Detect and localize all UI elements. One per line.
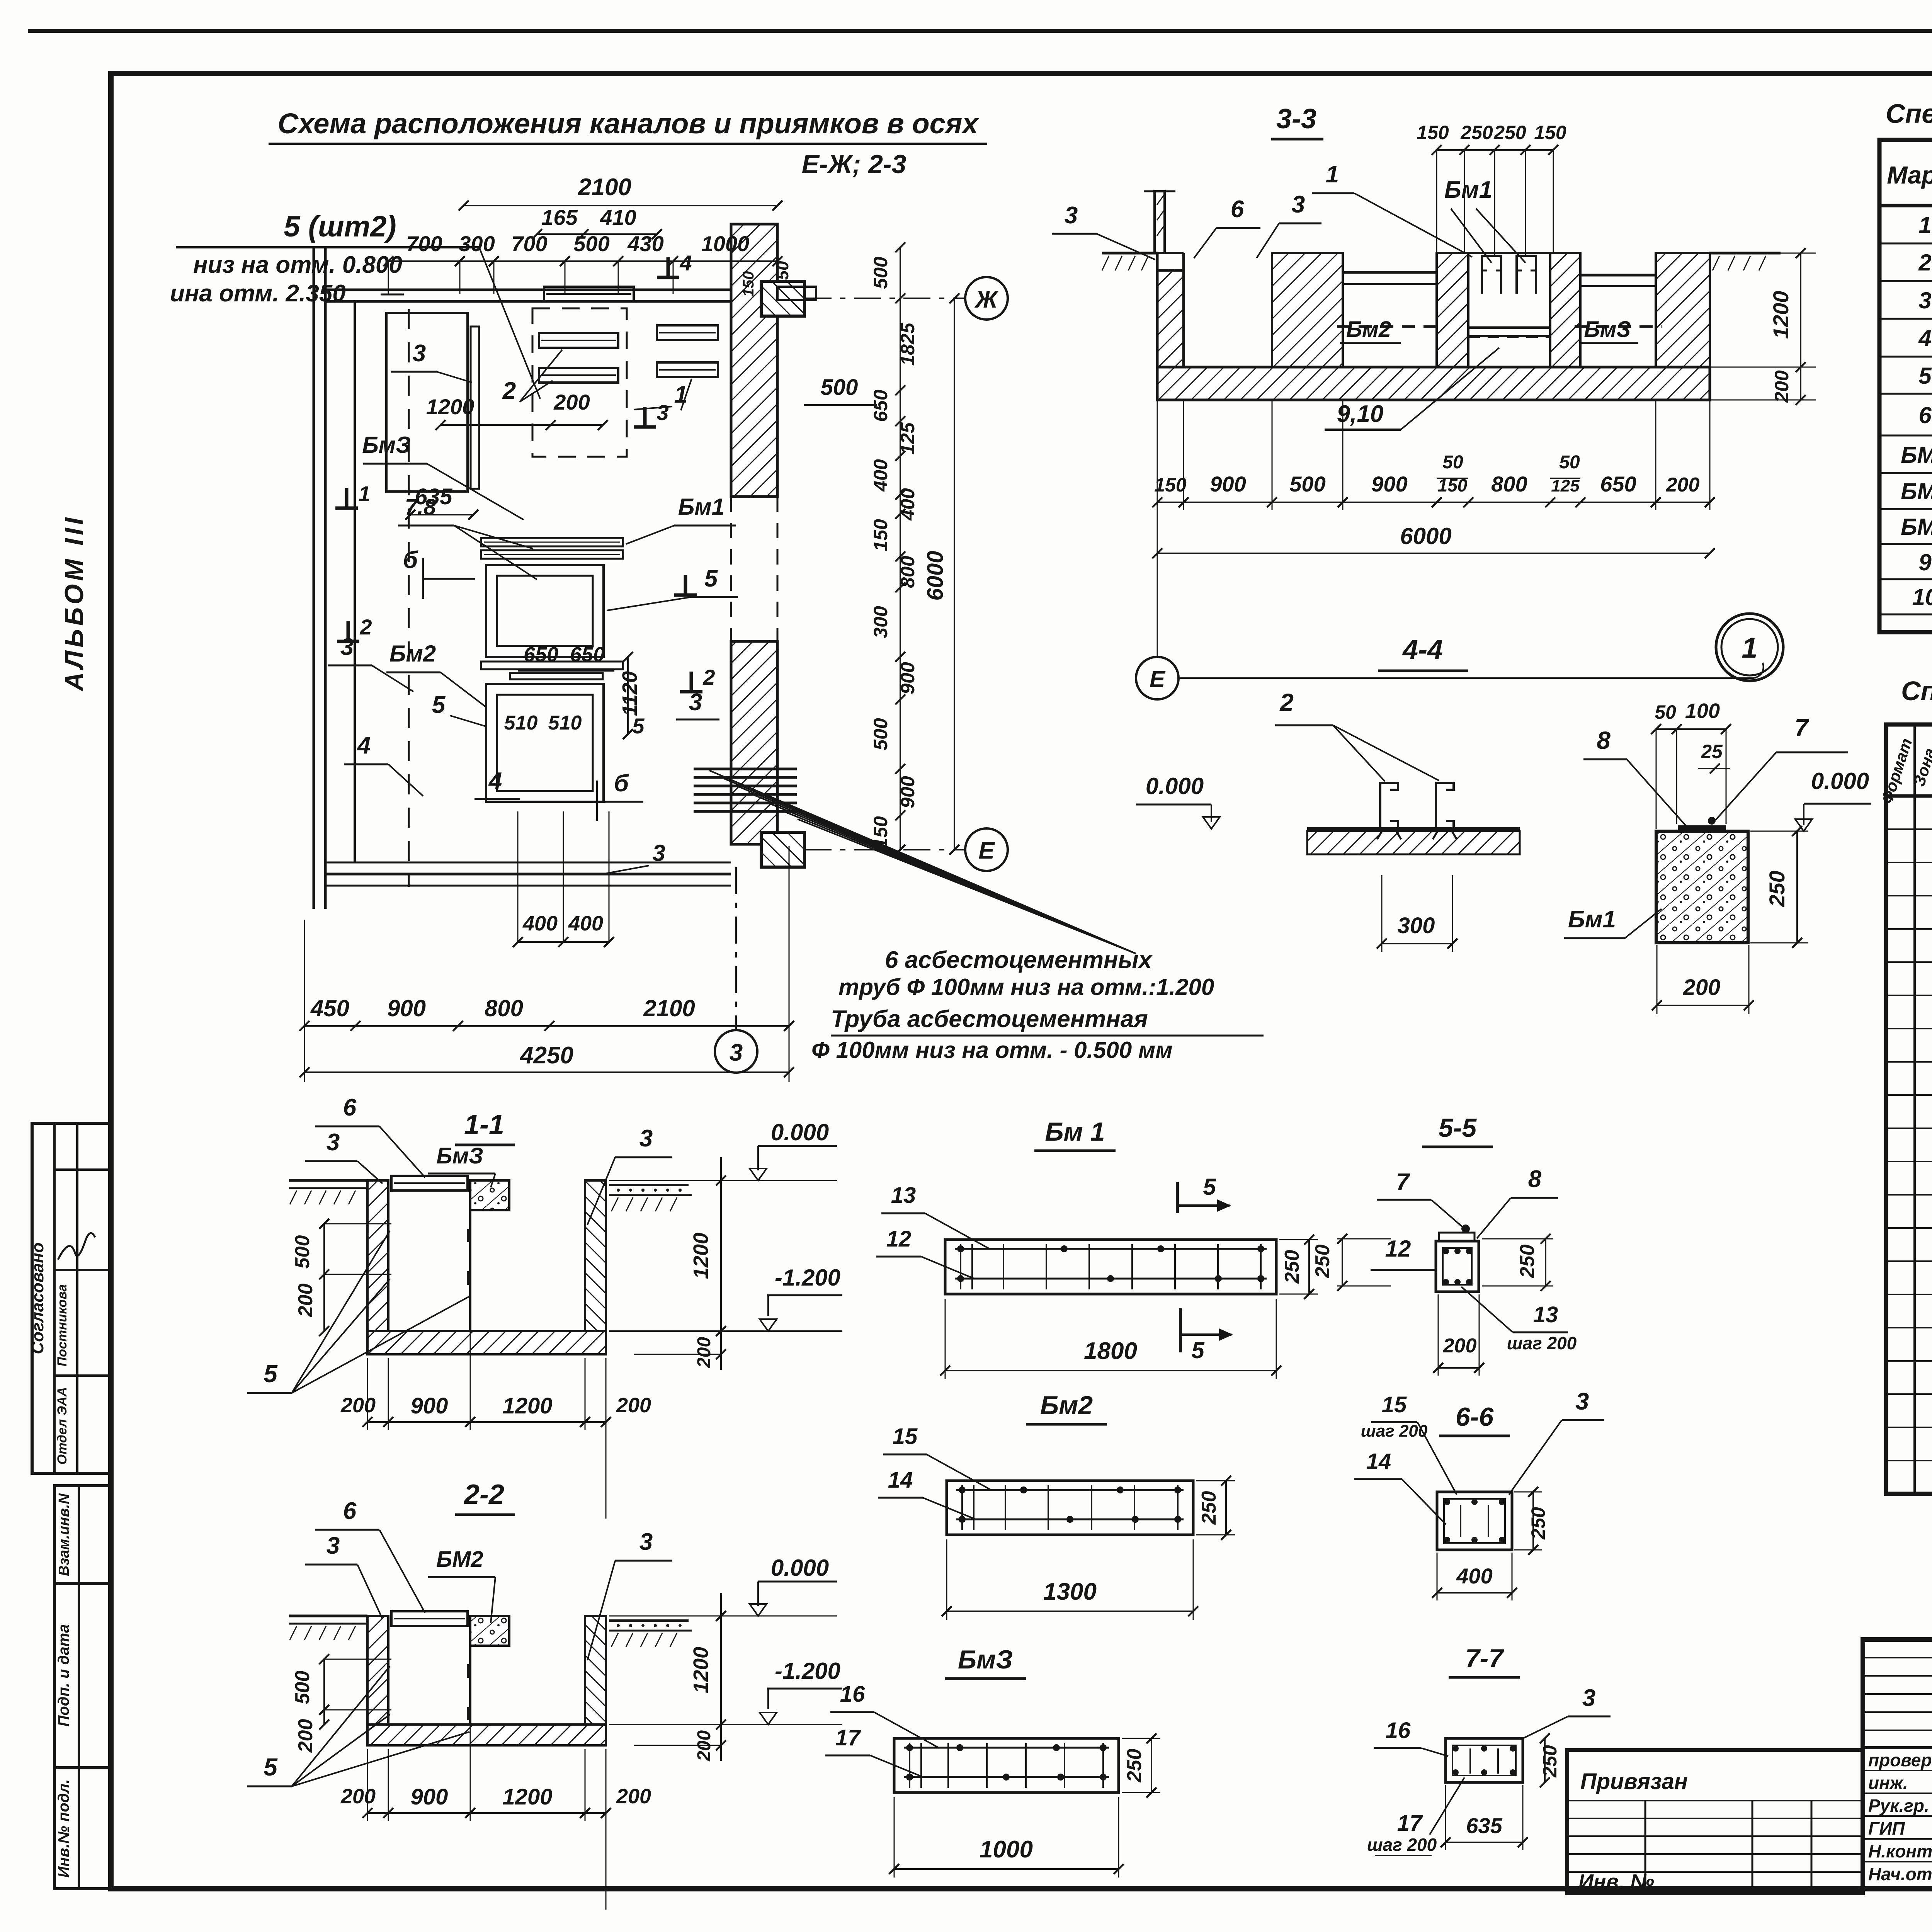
svg-text:3: 3 bbox=[652, 840, 665, 866]
svg-text:Бм2: Бм2 bbox=[389, 641, 436, 667]
svg-text:3: 3 bbox=[639, 1529, 653, 1555]
svg-text:5: 5 bbox=[264, 1753, 278, 1781]
svg-text:200: 200 bbox=[1666, 474, 1700, 496]
svg-text:500: 500 bbox=[870, 718, 891, 750]
svg-text:7-7: 7-7 bbox=[1465, 1644, 1504, 1673]
svg-text:Схема расположения каналов и п: Схема расположения каналов и приямков в … bbox=[277, 107, 979, 139]
svg-text:200: 200 bbox=[1443, 1335, 1477, 1357]
svg-text:1300: 1300 bbox=[1043, 1578, 1097, 1605]
svg-text:Спецификация к схеме располо: Спецификация к схеме расположения канало… bbox=[1886, 99, 1932, 129]
svg-text:Бм1: Бм1 bbox=[678, 494, 724, 520]
svg-text:2: 2 bbox=[502, 378, 516, 404]
svg-text:400: 400 bbox=[870, 459, 891, 492]
svg-text:16: 16 bbox=[840, 1682, 865, 1707]
svg-text:1: 1 bbox=[1742, 632, 1757, 664]
svg-text:2-2: 2-2 bbox=[463, 1479, 504, 1510]
svg-text:510: 510 bbox=[548, 712, 582, 734]
svg-text:5: 5 bbox=[1918, 363, 1932, 389]
svg-text:Бм 1: Бм 1 bbox=[1045, 1117, 1105, 1146]
svg-text:6: 6 bbox=[343, 1498, 357, 1524]
svg-text:200: 200 bbox=[694, 1730, 714, 1762]
svg-text:6 асбестоцементных: 6 асбестоцементных bbox=[885, 947, 1153, 973]
svg-text:50: 50 bbox=[773, 261, 792, 280]
svg-text:низ на отм. 0.800: низ на отм. 0.800 bbox=[193, 252, 402, 278]
svg-text:900: 900 bbox=[411, 1784, 448, 1810]
svg-text:2: 2 bbox=[359, 615, 372, 639]
svg-text:800: 800 bbox=[897, 556, 918, 588]
svg-text:3: 3 bbox=[327, 1532, 340, 1559]
svg-text:50: 50 bbox=[1559, 452, 1580, 473]
svg-text:500: 500 bbox=[870, 257, 891, 289]
svg-text:1: 1 bbox=[1326, 161, 1339, 188]
svg-text:635: 635 bbox=[1466, 1813, 1502, 1838]
svg-text:800: 800 bbox=[485, 995, 523, 1021]
svg-text:3: 3 bbox=[1576, 1388, 1589, 1415]
svg-text:25: 25 bbox=[1701, 741, 1723, 762]
svg-text:Спецификация монолитных ба: Спецификация монолитных балок Бм1; Бм2; … bbox=[1901, 676, 1932, 706]
svg-text:3: 3 bbox=[1065, 202, 1078, 229]
svg-text:Нач.отд: Нач.отд bbox=[1868, 1864, 1932, 1884]
svg-text:0.000: 0.000 bbox=[771, 1555, 829, 1581]
svg-text:4: 4 bbox=[1918, 325, 1931, 351]
svg-text:Марка: Марка bbox=[1887, 161, 1932, 189]
svg-text:150: 150 bbox=[1154, 474, 1187, 496]
svg-text:410: 410 bbox=[600, 205, 636, 230]
svg-text:Ж: Ж bbox=[974, 286, 999, 313]
svg-text:700: 700 bbox=[511, 231, 547, 256]
svg-text:15: 15 bbox=[1382, 1392, 1407, 1417]
svg-text:3: 3 bbox=[656, 400, 668, 425]
svg-text:3: 3 bbox=[730, 1039, 743, 1066]
svg-text:Труба асбестоцементная: Труба асбестоцементная bbox=[831, 1006, 1148, 1032]
svg-text:150: 150 bbox=[1417, 122, 1449, 143]
svg-text:125: 125 bbox=[1551, 476, 1580, 495]
svg-text:14: 14 bbox=[888, 1468, 913, 1493]
svg-text:650: 650 bbox=[570, 643, 605, 666]
svg-text:Бм1: Бм1 bbox=[1444, 177, 1492, 203]
svg-text:3: 3 bbox=[1292, 191, 1305, 218]
svg-text:200: 200 bbox=[616, 1785, 651, 1808]
svg-text:400: 400 bbox=[1456, 1564, 1492, 1588]
svg-text:650: 650 bbox=[1600, 472, 1636, 496]
svg-text:400: 400 bbox=[568, 912, 603, 935]
svg-text:5 (шт2): 5 (шт2) bbox=[284, 210, 396, 243]
svg-text:БМ2: БМ2 bbox=[1901, 478, 1932, 504]
svg-text:9: 9 bbox=[1918, 549, 1932, 575]
svg-text:6000: 6000 bbox=[923, 551, 948, 600]
svg-text:9,10: 9,10 bbox=[1337, 401, 1384, 427]
svg-text:2: 2 bbox=[702, 665, 715, 689]
svg-text:7.8: 7.8 bbox=[405, 495, 436, 520]
svg-text:150: 150 bbox=[870, 816, 891, 849]
svg-text:150: 150 bbox=[740, 271, 757, 297]
svg-text:1200: 1200 bbox=[502, 1784, 552, 1810]
svg-text:Е: Е bbox=[978, 837, 995, 864]
svg-text:450: 450 bbox=[310, 995, 349, 1021]
svg-text:0.000: 0.000 bbox=[1146, 773, 1204, 799]
svg-text:430: 430 bbox=[627, 231, 663, 256]
svg-text:Постникова: Постникова bbox=[55, 1284, 70, 1367]
svg-text:2100: 2100 bbox=[643, 995, 695, 1021]
svg-text:6: 6 bbox=[343, 1094, 357, 1121]
svg-text:БМ2: БМ2 bbox=[436, 1547, 483, 1572]
svg-text:50: 50 bbox=[1442, 452, 1463, 473]
svg-text:Бм2: Бм2 bbox=[1040, 1391, 1093, 1420]
svg-text:Рук.гр.: Рук.гр. bbox=[1868, 1796, 1929, 1816]
svg-text:1200: 1200 bbox=[502, 1393, 552, 1418]
svg-text:650: 650 bbox=[524, 643, 558, 666]
svg-text:250: 250 bbox=[1516, 1245, 1539, 1279]
svg-text:БмЗ: БмЗ bbox=[436, 1143, 483, 1168]
svg-text:6: 6 bbox=[1231, 196, 1244, 223]
svg-text:6-6: 6-6 bbox=[1456, 1402, 1494, 1432]
svg-text:БмЗ: БмЗ bbox=[958, 1645, 1013, 1674]
svg-text:1200: 1200 bbox=[689, 1233, 713, 1279]
svg-text:50: 50 bbox=[1655, 701, 1676, 723]
svg-text:Е: Е bbox=[1150, 666, 1166, 692]
svg-text:400: 400 bbox=[897, 488, 918, 521]
svg-text:б: б bbox=[403, 547, 418, 573]
svg-text:700: 700 bbox=[406, 231, 442, 256]
svg-text:ина отм. 2.350: ина отм. 2.350 bbox=[170, 280, 346, 307]
svg-text:12: 12 bbox=[1385, 1236, 1411, 1262]
svg-text:500: 500 bbox=[573, 231, 609, 256]
svg-text:250: 250 bbox=[1123, 1749, 1146, 1783]
svg-text:инж.: инж. bbox=[1868, 1773, 1908, 1793]
svg-text:5: 5 bbox=[1191, 1337, 1205, 1363]
svg-text:1000: 1000 bbox=[980, 1836, 1033, 1863]
svg-text:17: 17 bbox=[1397, 1811, 1423, 1836]
svg-text:17: 17 bbox=[835, 1725, 861, 1750]
svg-text:1800: 1800 bbox=[1084, 1338, 1137, 1364]
svg-text:1: 1 bbox=[1918, 212, 1931, 238]
svg-text:165: 165 bbox=[541, 205, 578, 230]
svg-text:900: 900 bbox=[1371, 472, 1407, 496]
svg-text:БМ3: БМ3 bbox=[1901, 514, 1932, 540]
svg-text:6000: 6000 bbox=[1400, 523, 1451, 549]
svg-text:250: 250 bbox=[1539, 1745, 1561, 1778]
svg-text:Инв.№ подл.: Инв.№ подл. bbox=[55, 1779, 72, 1878]
svg-text:4250: 4250 bbox=[519, 1042, 573, 1069]
svg-text:14: 14 bbox=[1366, 1449, 1391, 1474]
svg-text:200: 200 bbox=[694, 1337, 714, 1368]
svg-text:б: б bbox=[614, 770, 629, 797]
svg-text:Инв. №: Инв. № bbox=[1578, 1870, 1654, 1893]
svg-text:3: 3 bbox=[327, 1129, 340, 1156]
svg-text:1000: 1000 bbox=[701, 231, 750, 256]
svg-text:2: 2 bbox=[1279, 689, 1294, 716]
svg-text:2100: 2100 bbox=[578, 174, 631, 201]
svg-text:900: 900 bbox=[897, 662, 918, 694]
svg-text:Согласовано: Согласовано bbox=[28, 1242, 47, 1354]
svg-text:5-5: 5-5 bbox=[1439, 1113, 1477, 1143]
svg-text:шаг 200: шаг 200 bbox=[1507, 1333, 1577, 1353]
svg-text:500: 500 bbox=[291, 1671, 314, 1704]
svg-text:5: 5 bbox=[704, 565, 718, 592]
svg-text:БмЗ: БмЗ bbox=[1584, 317, 1631, 342]
svg-text:4: 4 bbox=[488, 768, 502, 794]
svg-text:Отдел ЭАА: Отдел ЭАА bbox=[55, 1387, 70, 1465]
svg-text:16: 16 bbox=[1386, 1718, 1411, 1743]
svg-text:13: 13 bbox=[891, 1183, 916, 1208]
svg-text:Бм2: Бм2 bbox=[1346, 317, 1391, 342]
svg-text:12: 12 bbox=[886, 1226, 912, 1252]
svg-text:13: 13 bbox=[1533, 1302, 1558, 1327]
svg-text:0.000: 0.000 bbox=[1811, 768, 1869, 794]
svg-text:1: 1 bbox=[358, 481, 370, 506]
svg-text:1120: 1120 bbox=[618, 671, 641, 716]
svg-text:300: 300 bbox=[870, 606, 891, 638]
svg-text:300: 300 bbox=[459, 231, 495, 256]
svg-text:4-4: 4-4 bbox=[1402, 634, 1443, 665]
svg-text:7: 7 bbox=[1396, 1169, 1410, 1196]
svg-text:200: 200 bbox=[340, 1785, 376, 1808]
svg-text:500: 500 bbox=[1289, 472, 1325, 496]
svg-text:8: 8 bbox=[1528, 1166, 1542, 1192]
svg-text:5: 5 bbox=[632, 714, 645, 738]
svg-text:шаг 200: шаг 200 bbox=[1361, 1422, 1428, 1440]
svg-text:3: 3 bbox=[413, 340, 426, 367]
svg-text:БМ1: БМ1 bbox=[1901, 442, 1932, 468]
svg-text:Е-Ж; 2-3: Е-Ж; 2-3 bbox=[802, 150, 906, 179]
svg-text:200: 200 bbox=[553, 390, 590, 414]
svg-text:500: 500 bbox=[821, 375, 858, 400]
svg-text:200: 200 bbox=[340, 1394, 376, 1417]
svg-text:250: 250 bbox=[1765, 871, 1789, 907]
svg-text:4: 4 bbox=[357, 732, 371, 759]
svg-text:400: 400 bbox=[522, 912, 558, 935]
svg-text:800: 800 bbox=[1491, 472, 1527, 496]
svg-text:900: 900 bbox=[897, 776, 918, 808]
svg-text:200: 200 bbox=[616, 1394, 651, 1417]
svg-text:200: 200 bbox=[294, 1719, 317, 1753]
svg-text:-1.200: -1.200 bbox=[775, 1265, 840, 1291]
svg-text:6: 6 bbox=[1918, 402, 1932, 428]
svg-text:БмЗ: БмЗ bbox=[362, 432, 410, 458]
svg-text:5: 5 bbox=[264, 1360, 278, 1388]
svg-text:провер.: провер. bbox=[1868, 1750, 1932, 1770]
svg-text:Бм1: Бм1 bbox=[1568, 906, 1616, 933]
svg-text:2: 2 bbox=[1918, 250, 1931, 276]
svg-text:1-1: 1-1 bbox=[464, 1109, 504, 1140]
svg-text:900: 900 bbox=[1210, 472, 1246, 496]
svg-text:250: 250 bbox=[1527, 1507, 1549, 1540]
svg-text:3-3: 3-3 bbox=[1276, 104, 1316, 134]
svg-text:300: 300 bbox=[1398, 913, 1435, 938]
svg-text:200: 200 bbox=[1771, 370, 1793, 403]
svg-text:200: 200 bbox=[1683, 975, 1721, 1000]
svg-text:150: 150 bbox=[1534, 122, 1566, 143]
svg-text:Ф 100мм низ на отм. - 0.500 мм: Ф 100мм низ на отм. - 0.500 мм bbox=[811, 1037, 1173, 1063]
svg-text:15: 15 bbox=[893, 1424, 918, 1449]
svg-text:900: 900 bbox=[387, 995, 426, 1021]
svg-text:1200: 1200 bbox=[1769, 291, 1793, 339]
svg-text:АЛЬБОМ III: АЛЬБОМ III bbox=[60, 514, 89, 692]
svg-text:10: 10 bbox=[1912, 584, 1932, 610]
svg-text:4: 4 bbox=[679, 251, 692, 275]
svg-text:900: 900 bbox=[411, 1393, 448, 1418]
svg-text:3: 3 bbox=[1918, 287, 1931, 313]
svg-text:200: 200 bbox=[294, 1284, 317, 1318]
svg-text:150: 150 bbox=[870, 519, 891, 551]
svg-text:500: 500 bbox=[291, 1235, 314, 1269]
svg-text:Привязан: Привязан bbox=[1580, 1769, 1688, 1794]
svg-text:3: 3 bbox=[639, 1125, 653, 1152]
svg-text:250: 250 bbox=[1493, 122, 1526, 143]
svg-text:8: 8 bbox=[1597, 726, 1611, 754]
svg-text:0.000: 0.000 bbox=[771, 1119, 829, 1145]
svg-text:ГИП: ГИП bbox=[1868, 1818, 1905, 1838]
svg-text:510: 510 bbox=[504, 712, 538, 734]
svg-text:1825: 1825 bbox=[897, 322, 918, 366]
svg-text:250: 250 bbox=[1281, 1250, 1303, 1284]
svg-text:5: 5 bbox=[432, 692, 446, 718]
svg-text:-1.200: -1.200 bbox=[775, 1658, 840, 1684]
svg-text:3: 3 bbox=[1582, 1685, 1595, 1711]
svg-text:труб Ф 100мм низ на отм.:1.200: труб Ф 100мм низ на отм.:1.200 bbox=[838, 974, 1214, 1000]
svg-text:7: 7 bbox=[1794, 714, 1810, 742]
svg-text:250: 250 bbox=[1198, 1491, 1220, 1525]
svg-text:шаг 200: шаг 200 bbox=[1367, 1835, 1437, 1855]
svg-text:1200: 1200 bbox=[689, 1647, 713, 1693]
svg-text:5: 5 bbox=[1203, 1174, 1216, 1200]
svg-text:250: 250 bbox=[1460, 122, 1493, 143]
svg-text:Н.контр: Н.контр bbox=[1868, 1841, 1932, 1861]
svg-text:1200: 1200 bbox=[426, 395, 474, 419]
svg-text:100: 100 bbox=[1685, 699, 1720, 723]
svg-text:250: 250 bbox=[1311, 1245, 1334, 1279]
svg-text:125: 125 bbox=[897, 422, 918, 455]
svg-text:Взам.инв.N: Взам.инв.N bbox=[56, 1493, 72, 1576]
svg-text:Подп. и дата: Подп. и дата bbox=[55, 1624, 72, 1727]
